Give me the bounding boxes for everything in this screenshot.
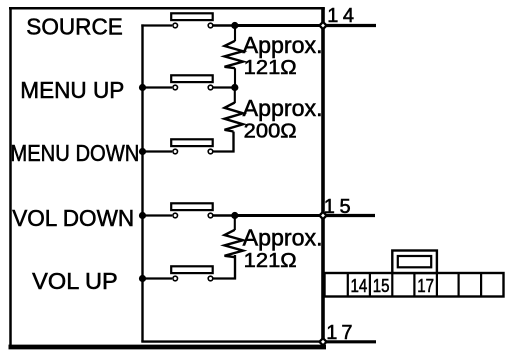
- junction dot: MENU DOWN row on left bus: [139, 148, 146, 155]
- steering switch assembly box: right edge / bus to pins: [321, 8, 325, 344]
- connector body (8-cavity row): [325, 273, 504, 297]
- wire: left bus vertical (SOURCE row down to bottom wire): [141, 24, 143, 341]
- svg-text:15: 15: [324, 196, 355, 218]
- svg-text:MENU DOWN: MENU DOWN: [10, 140, 139, 166]
- wire: VOL DOWN row junction to box edge (pin 15): [235, 214, 323, 217]
- connector cavity divider 6: [458, 273, 460, 297]
- svg-text:VOL DOWN: VOL DOWN: [12, 205, 134, 231]
- wire: pin 17 lead: [323, 340, 376, 343]
- switch VOL UP: [171, 266, 213, 281]
- svg-text:17: 17: [417, 275, 434, 296]
- junction dot: VOL UP row on left bus: [139, 275, 146, 282]
- wire: SOURCE row junction to box edge (pin 14): [235, 24, 323, 27]
- junction dot: MENU UP row on left bus: [139, 84, 146, 91]
- svg-text:SOURCE: SOURCE: [26, 13, 123, 39]
- svg-text:14: 14: [327, 5, 358, 27]
- switch MENU UP: [171, 75, 213, 89]
- wire: MENU UP row right segment to resistor junction: [213, 86, 235, 88]
- steering switch assembly box: bottom edge: [9, 345, 327, 350]
- junction dot: VOL DOWN row on left bus: [139, 212, 146, 219]
- connector cavity divider 2: [369, 273, 371, 297]
- connector cavity divider 3: [391, 273, 393, 297]
- switch VOL DOWN: [171, 203, 213, 218]
- steering switch assembly box: left edge: [9, 8, 12, 350]
- connector lock tab outer: [392, 251, 437, 274]
- svg-text:14: 14: [350, 275, 367, 296]
- wire: VOL UP row left segment: [141, 277, 172, 279]
- wire: MENU DOWN row left segment: [141, 150, 172, 152]
- svg-text:Approx.: Approx.: [243, 95, 323, 121]
- connector cavity divider 5: [436, 273, 438, 297]
- connector lock tab inner: [398, 256, 431, 267]
- node: pin 17 (open diamond): [319, 338, 326, 345]
- svg-text:200Ω: 200Ω: [244, 121, 297, 143]
- wire: pin 15 lead: [323, 214, 375, 217]
- svg-text:121Ω: 121Ω: [244, 250, 297, 272]
- wire: SOURCE row right segment to resistor junction: [213, 24, 235, 26]
- resistor R3 (between VOL DOWN and VOL UP rows): [225, 216, 244, 279]
- svg-text:MENU UP: MENU UP: [20, 77, 124, 103]
- resistor R1 (between SOURCE and MENU UP rows): [225, 26, 244, 88]
- wire: MENU DOWN row right segment up to resistor R2 bottom: [213, 132, 234, 152]
- switch SOURCE: [171, 13, 213, 28]
- junction dot: SOURCE row / resistor R1 top: [231, 22, 238, 29]
- node: pin 15 (open diamond): [319, 212, 326, 219]
- connector cavity divider 1: [347, 273, 349, 297]
- wire: VOL DOWN row right segment to resistor junction: [213, 214, 235, 216]
- svg-text:Approx.: Approx.: [243, 225, 323, 251]
- svg-text:15: 15: [373, 275, 390, 296]
- node: pin 14 (open diamond): [319, 22, 326, 29]
- svg-text:VOL UP: VOL UP: [32, 268, 118, 294]
- wire: VOL DOWN row left segment: [141, 214, 172, 216]
- connector cavity divider 7: [480, 273, 482, 297]
- svg-text:Approx.: Approx.: [243, 32, 323, 58]
- wire: MENU UP row left segment: [141, 86, 172, 88]
- junction dot: VOL DOWN row / resistor R3 top: [231, 212, 238, 219]
- switch MENU DOWN: [171, 139, 213, 154]
- resistor R2 (between MENU UP and MENU DOWN rows): [225, 88, 244, 152]
- wire: VOL UP row right segment up to resistor R3 bottom: [213, 255, 235, 279]
- connector cavity divider 4: [413, 273, 415, 297]
- svg-text:121Ω: 121Ω: [244, 57, 297, 79]
- wire: pin 14 lead: [323, 24, 376, 27]
- steering switch assembly box: top edge: [9, 7, 325, 10]
- svg-text:17: 17: [326, 322, 356, 344]
- wire: bottom horizontal run from left bus to pin 17 node: [141, 340, 323, 342]
- wire: SOURCE row left segment: [141, 24, 172, 26]
- junction dot: resistor R1 bottom / R2 top: [231, 84, 238, 91]
